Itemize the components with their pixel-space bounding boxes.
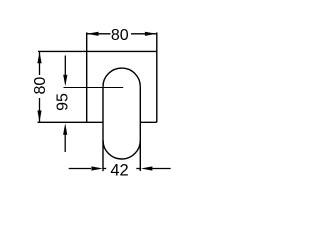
dim 80 left: top arrowhead <box>37 52 41 64</box>
dim 42: left arrowhead pointing right <box>91 166 103 170</box>
dim 95: lower arrowhead pointing up <box>63 123 67 135</box>
plate bottom edge right segment <box>140 121 157 123</box>
dim 42: inner stub right <box>136 168 140 170</box>
dim 95: upper arrowhead pointing down <box>63 75 67 87</box>
dim 80 left: dimension line lower segment <box>39 98 41 122</box>
dim 80 left: bottom arrowhead <box>37 111 41 123</box>
dim 80 top: dimension line left segment <box>87 33 111 35</box>
plate left edge with top extension line <box>86 32 88 122</box>
svg-text:95: 95 <box>55 93 72 111</box>
svg-text:80: 80 <box>111 27 129 44</box>
dim 95: upper tail line <box>64 56 66 76</box>
dim 80 top: dimension line right segment <box>131 33 156 35</box>
dim 80 left: dimension line upper segment <box>39 52 41 75</box>
dim 95: lower tail line <box>64 134 66 152</box>
plate bottom edge left segment with extension line <box>38 121 104 123</box>
svg-text:80: 80 <box>32 77 49 95</box>
slot arc tangent line <box>64 87 124 89</box>
dim 42: left tail line <box>69 168 91 170</box>
dim 42: right arrowhead pointing left <box>141 166 153 170</box>
dim 42: right tail line <box>153 168 171 170</box>
plate top edge with left extension line <box>38 50 157 52</box>
slot bottom arc <box>103 140 140 159</box>
slot left side with bottom extension line <box>102 87 104 172</box>
dim 42: inner stub left <box>103 168 106 170</box>
slot top arc <box>103 68 140 87</box>
dim 80 top: right arrowhead <box>145 32 157 36</box>
svg-text:42: 42 <box>110 161 128 179</box>
dim 80 top: left arrowhead <box>87 32 99 36</box>
slot right side with bottom extension line <box>139 87 141 171</box>
plate right edge with top extension line <box>156 32 158 122</box>
